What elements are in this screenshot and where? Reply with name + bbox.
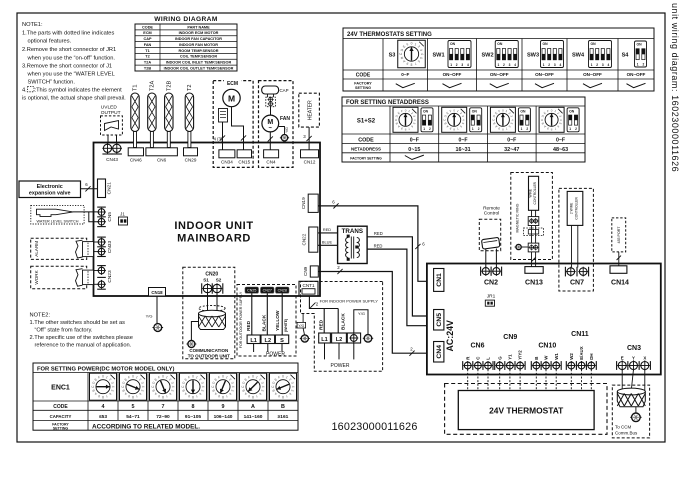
svg-text:L: L bbox=[486, 357, 491, 360]
svg-text:4: 4 bbox=[111, 386, 115, 388]
svg-text:ON: ON bbox=[637, 43, 643, 47]
svg-text:TO OUTDOOR UNIT: TO OUTDOOR UNIT bbox=[188, 354, 230, 359]
svg-text:2: 2 bbox=[456, 63, 458, 67]
svg-text:S: S bbox=[280, 338, 284, 344]
rotary+DIP cell S1+S2 option 1 bbox=[393, 107, 418, 132]
svg-text:“Off” state from factory.: “Off” state from factory. bbox=[35, 328, 93, 334]
optional WORK output plug bbox=[31, 266, 87, 289]
svg-text:L2: L2 bbox=[336, 337, 343, 343]
svg-text:T2: T2 bbox=[145, 55, 149, 59]
connector CN19 bbox=[308, 194, 318, 212]
optional 2 WIRE CONTROLLER bbox=[559, 188, 594, 291]
table: 24V THERMOSTATS SETTING bbox=[343, 28, 654, 91]
indoor unit mainboard outline bbox=[94, 143, 321, 297]
svg-text:2: 2 bbox=[548, 63, 550, 67]
svg-text:1: 1 bbox=[637, 62, 639, 66]
svg-text:1: 1 bbox=[497, 63, 499, 67]
svg-text:ROOM TEMP.SENSOR: ROOM TEMP.SENSOR bbox=[178, 49, 218, 53]
svg-text:ON~OFF: ON~OFF bbox=[627, 72, 646, 77]
svg-text:8: 8 bbox=[102, 395, 104, 399]
svg-text:SW3: SW3 bbox=[527, 53, 539, 59]
svg-text:2: 2 bbox=[503, 63, 505, 67]
svg-text:E: E bbox=[621, 355, 624, 360]
optional To CCM Comm.Bus shielded cable bbox=[612, 385, 649, 438]
wire BLUE CN22 to TRANS bbox=[318, 244, 338, 246]
electronic expansion valve bbox=[19, 181, 81, 198]
svg-text:T2A: T2A bbox=[149, 80, 155, 91]
svg-text:INDOOR FAN CAPACITOR: INDOOR FAN CAPACITOR bbox=[175, 37, 222, 41]
svg-text:NOTE1:: NOTE1: bbox=[22, 22, 43, 28]
svg-text:Y/G: Y/G bbox=[358, 311, 365, 316]
svg-text:Y/G: Y/G bbox=[146, 314, 153, 319]
svg-text:CN46: CN46 bbox=[130, 158, 142, 163]
svg-text:1.The other switches should be: 1.The other switches should be set as bbox=[30, 320, 126, 326]
fan motor M (FAN) bbox=[262, 115, 279, 132]
svg-text:T1: T1 bbox=[145, 49, 149, 53]
connector CN28 (black pill) bbox=[276, 287, 290, 293]
svg-text:NOTE2:: NOTE2: bbox=[30, 313, 51, 319]
svg-text:CN15: CN15 bbox=[238, 160, 250, 165]
svg-text:16023000011626: 16023000011626 bbox=[331, 421, 417, 433]
svg-text:CONTROLLER: CONTROLLER bbox=[533, 181, 537, 204]
svg-text:3: 3 bbox=[602, 63, 604, 67]
ground (CN18) bbox=[154, 324, 162, 332]
table: FOR SETTING POWER (DC MOTOR MODEL ONLY) bbox=[33, 363, 298, 430]
svg-text:4: 4 bbox=[141, 386, 145, 388]
magnetic ring upper bbox=[528, 217, 539, 226]
svg-text:0: 0 bbox=[132, 375, 134, 379]
optional HEATER bbox=[299, 93, 320, 127]
svg-text:5: 5 bbox=[132, 404, 135, 410]
optional communication-to-outdoor-unit group CN20 bbox=[183, 267, 235, 359]
svg-text:UVLED: UVLED bbox=[101, 105, 118, 111]
svg-text:≥161: ≥161 bbox=[278, 414, 289, 420]
svg-text:FAN: FAN bbox=[280, 116, 290, 122]
svg-text:S1+S2: S1+S2 bbox=[357, 119, 376, 125]
magnetic ring lower bbox=[528, 243, 539, 252]
rotary switch ENC1 code 5 bbox=[120, 373, 147, 400]
svg-text:RED: RED bbox=[246, 320, 252, 331]
wire shield to ground (CCM) bbox=[635, 407, 637, 413]
rotary switch ENC1 code 9 bbox=[210, 373, 237, 400]
svg-text:ON: ON bbox=[450, 42, 456, 46]
shielded cable (CCM) bbox=[617, 388, 645, 395]
svg-text:INDOOR UNIT: INDOOR UNIT bbox=[174, 220, 253, 232]
factory-setting checkmark bbox=[583, 83, 602, 87]
svg-text:ON: ON bbox=[569, 109, 575, 113]
svg-text:CODE: CODE bbox=[142, 25, 153, 29]
svg-text:(WHITE): (WHITE) bbox=[284, 319, 288, 332]
svg-text:CAP: CAP bbox=[143, 37, 151, 41]
wire CNT1 to indoor power terminals, 2 conductors bbox=[309, 296, 338, 309]
svg-text:ACCORDING TO RELATED MODEL.: ACCORDING TO RELATED MODEL. bbox=[92, 423, 200, 430]
svg-text:0~F: 0~F bbox=[556, 138, 565, 144]
svg-text:ECM: ECM bbox=[227, 81, 238, 87]
svg-text:2 WIRE: 2 WIRE bbox=[569, 202, 573, 214]
svg-text:CN2: CN2 bbox=[484, 279, 498, 286]
svg-text:CN11: CN11 bbox=[571, 331, 589, 338]
connector CN13 bbox=[525, 267, 543, 274]
svg-text:4: 4 bbox=[420, 53, 424, 55]
svg-text:CN12: CN12 bbox=[304, 160, 316, 165]
svg-text:CN6: CN6 bbox=[157, 158, 167, 163]
svg-text:CONTROLLER: CONTROLLER bbox=[574, 197, 578, 220]
svg-text:BLACK: BLACK bbox=[341, 313, 347, 330]
svg-text:24V THERMOSTATS SETTING: 24V THERMOSTATS SETTING bbox=[347, 32, 432, 38]
connector CN5 (AC24V) bbox=[434, 310, 444, 331]
svg-text:ON~OFF: ON~OFF bbox=[443, 72, 462, 77]
svg-text:SW1: SW1 bbox=[432, 53, 444, 59]
wire RED TRANS to CN5 (AC24V) lower bbox=[367, 249, 427, 326]
svg-text:CN43: CN43 bbox=[106, 157, 118, 162]
svg-text:0~F: 0~F bbox=[410, 138, 419, 144]
wire YELLOW(WHITE) to terminal S bbox=[281, 293, 283, 335]
svg-text:Control: Control bbox=[484, 211, 499, 217]
ground (indoor power) bbox=[364, 335, 372, 343]
svg-text:FACTORY: FACTORY bbox=[354, 82, 372, 86]
svg-text:INDOOR ECM MOTOR: INDOOR ECM MOTOR bbox=[179, 31, 219, 35]
connector CN22 bbox=[309, 227, 318, 252]
svg-text:54~71: 54~71 bbox=[126, 414, 140, 420]
fan motor ground wire Y/G bbox=[279, 127, 285, 135]
svg-text:SETTING: SETTING bbox=[355, 86, 371, 90]
wire RED to terminal L1 (outdoor power) bbox=[251, 293, 253, 335]
wire EEV to CN21, 6 conductors bbox=[81, 188, 98, 190]
svg-text:CN28: CN28 bbox=[278, 289, 287, 293]
svg-text:RED: RED bbox=[374, 231, 383, 236]
connector CN14 bbox=[610, 266, 627, 274]
svg-text:INDOOR FAN MOTOR: INDOOR FAN MOTOR bbox=[179, 43, 218, 47]
wires controller to magnetic ring bbox=[531, 210, 533, 216]
svg-text:B: B bbox=[534, 357, 539, 360]
svg-text:SW2: SW2 bbox=[481, 53, 493, 59]
connector CN9 (indoor board) bbox=[310, 266, 318, 277]
svg-text:POWER: POWER bbox=[266, 351, 285, 357]
svg-text:CN6: CN6 bbox=[470, 342, 484, 349]
svg-text::This symbol indicates the ele: :This symbol indicates the element bbox=[35, 88, 123, 94]
svg-text:1: 1 bbox=[450, 63, 452, 67]
optional ALARM output plug bbox=[31, 238, 87, 259]
wire CN9 to CN4 (AC24V), 2 conductors bbox=[318, 272, 427, 354]
factory-setting checkmark bbox=[535, 83, 554, 87]
svg-text:4: 4 bbox=[467, 63, 469, 67]
connector CN33 bbox=[97, 236, 106, 238]
wire RED CN22 to TRANS bbox=[318, 232, 338, 234]
svg-text:CN25: CN25 bbox=[247, 289, 256, 293]
svg-text:FACTORY SETTING: FACTORY SETTING bbox=[350, 156, 382, 160]
svg-text:NETADDRESS: NETADDRESS bbox=[351, 147, 381, 152]
svg-text:INDOOR COIL INLET TEMP.SENSOR: INDOOR COIL INLET TEMP.SENSOR bbox=[166, 61, 232, 65]
svg-text:8: 8 bbox=[162, 395, 164, 399]
wire HEATER to CN12, 3 conductors bbox=[308, 127, 310, 150]
optional 24V THERMOSTAT bbox=[445, 384, 607, 435]
optional ECM motor assembly bbox=[213, 81, 253, 168]
svg-text:RED: RED bbox=[319, 319, 325, 330]
svg-text:3.Remove the short connector o: 3.Remove the short connector of J1 bbox=[22, 64, 112, 70]
optional 485 PORT bbox=[612, 218, 626, 252]
svg-text:4: 4 bbox=[261, 386, 265, 388]
svg-text:FOR SETTING POWER(DC MOTOR MOD: FOR SETTING POWER(DC MOTOR MODEL ONLY) bbox=[37, 367, 174, 373]
capacitor plug connector bbox=[266, 97, 276, 107]
svg-text:ON: ON bbox=[591, 42, 597, 46]
svg-text:0~F: 0~F bbox=[459, 138, 468, 144]
svg-text:0: 0 bbox=[222, 375, 224, 379]
svg-text:WATER LEVEL SWITCH: WATER LEVEL SWITCH bbox=[36, 219, 78, 223]
svg-text:CAPACITY: CAPACITY bbox=[50, 414, 72, 419]
svg-text:0: 0 bbox=[411, 42, 413, 46]
wires remote to CN2 bbox=[485, 249, 487, 268]
svg-text:CN5: CN5 bbox=[436, 313, 443, 327]
wire ECM to CN15 bbox=[232, 107, 244, 150]
rotary switch ENC1 code B bbox=[270, 373, 297, 400]
svg-text:24V THERMOSTAT: 24V THERMOSTAT bbox=[489, 405, 564, 415]
svg-text:4: 4 bbox=[514, 63, 516, 67]
optional fan capacitor + AC fan assembly bbox=[259, 81, 294, 168]
svg-text:AC:24V: AC:24V bbox=[445, 320, 455, 351]
svg-text:8: 8 bbox=[192, 395, 194, 399]
svg-text:Y1: Y1 bbox=[508, 354, 513, 360]
connector CN27 (black pill) bbox=[261, 287, 275, 293]
connector CN20 pins S1 S2 bbox=[201, 283, 203, 293]
svg-text:3: 3 bbox=[509, 63, 511, 67]
svg-text:CN33: CN33 bbox=[107, 241, 113, 254]
connector CN4 (AC24V) bbox=[434, 342, 444, 363]
transformer TRANS bbox=[338, 226, 368, 263]
wires ALARM plug to CN33 bbox=[94, 241, 99, 243]
svg-text:ON~OFF: ON~OFF bbox=[583, 72, 602, 77]
svg-text:RED: RED bbox=[323, 227, 331, 232]
svg-text:YELLOW: YELLOW bbox=[275, 310, 281, 331]
svg-text:S1: S1 bbox=[203, 278, 209, 283]
svg-text:CN5: CN5 bbox=[107, 212, 113, 222]
svg-text:CN29: CN29 bbox=[185, 158, 197, 163]
svg-text:2.The specific use of the swit: 2.The specific use of the switches pleas… bbox=[30, 335, 133, 341]
svg-text:4.: 4. bbox=[22, 88, 27, 94]
svg-text:CN9: CN9 bbox=[503, 334, 517, 341]
svg-text:expansion valve: expansion valve bbox=[29, 191, 71, 197]
rotary switch ENC1 code 4 bbox=[90, 373, 117, 400]
svg-text:1.The parts with dotted line i: 1.The parts with dotted line indicates bbox=[22, 31, 114, 37]
svg-text:CN21: CN21 bbox=[107, 182, 113, 195]
svg-text:SWITCH” function.: SWITCH” function. bbox=[28, 80, 76, 86]
WIRE CONTROLLER bbox=[529, 176, 539, 210]
svg-text:T1: T1 bbox=[133, 84, 139, 91]
wire FAN to CN4 bbox=[269, 132, 271, 150]
svg-text:DH: DH bbox=[589, 353, 594, 359]
svg-text:CODE: CODE bbox=[358, 138, 374, 144]
svg-text:0~15: 0~15 bbox=[408, 147, 420, 153]
svg-text:48~63: 48~63 bbox=[553, 147, 568, 153]
ground (CCM) bbox=[632, 413, 641, 422]
svg-text:Remote: Remote bbox=[483, 205, 500, 211]
ground (fan motor) bbox=[281, 135, 287, 141]
svg-text:4: 4 bbox=[608, 63, 610, 67]
svg-text:SW4: SW4 bbox=[572, 53, 585, 59]
table: FOR SETTING NETADDRESS bbox=[342, 97, 585, 162]
svg-text:JR1: JR1 bbox=[487, 294, 496, 300]
svg-text:ON: ON bbox=[520, 109, 526, 113]
rotary switch ENC1 code 7 bbox=[150, 373, 177, 400]
factory-setting checkmark bbox=[405, 155, 424, 159]
svg-text:CN20: CN20 bbox=[205, 271, 218, 277]
capacitor CAP bbox=[262, 86, 279, 94]
svg-text:ENC1: ENC1 bbox=[51, 385, 70, 392]
svg-text:T2: T2 bbox=[187, 84, 193, 91]
wires 2wire controller to CN7 bbox=[571, 225, 573, 267]
wires below outdoor power terminals bbox=[253, 344, 255, 353]
svg-text:T2A: T2A bbox=[144, 61, 151, 65]
svg-text:Comm.Bus: Comm.Bus bbox=[615, 430, 638, 435]
svg-text:72~90: 72~90 bbox=[156, 414, 170, 420]
svg-text:TRANS: TRANS bbox=[342, 228, 363, 235]
svg-text:ON: ON bbox=[543, 42, 549, 46]
connector CN25 (black pill) bbox=[245, 287, 259, 293]
svg-text:141~160: 141~160 bbox=[244, 414, 263, 420]
svg-text:CNT1: CNT1 bbox=[303, 283, 315, 288]
svg-text:CN18: CN18 bbox=[151, 290, 163, 295]
connector CN46 bbox=[128, 148, 143, 156]
svg-text:FOR OUTDOOR POWER SUPPLY: FOR OUTDOOR POWER SUPPLY bbox=[239, 291, 243, 348]
svg-text:SETTING: SETTING bbox=[53, 426, 68, 430]
factory-setting checkmark bbox=[627, 83, 646, 87]
connector CN5 (indoor board) bbox=[97, 206, 106, 208]
svg-text:CN13: CN13 bbox=[525, 279, 543, 286]
wires S1 S2 to shielded cable bbox=[207, 293, 209, 312]
svg-text:Y/G: Y/G bbox=[285, 127, 289, 133]
svg-text:X: X bbox=[643, 355, 646, 360]
svg-text:unit wiring diagram: 160230000: unit wiring diagram: 16023000011626 bbox=[670, 3, 680, 172]
svg-text:L1: L1 bbox=[321, 337, 328, 343]
connector CN2 bbox=[480, 267, 482, 276]
svg-text:≤53: ≤53 bbox=[99, 414, 107, 420]
svg-text:2: 2 bbox=[643, 62, 645, 66]
svg-text:0: 0 bbox=[102, 375, 104, 379]
svg-text:MAGNETIC RING: MAGNETIC RING bbox=[515, 203, 519, 232]
svg-text:9: 9 bbox=[222, 404, 225, 410]
optional FOR INDOOR POWER SUPPLY terminal group bbox=[301, 282, 383, 372]
svg-text:CAP: CAP bbox=[280, 88, 289, 93]
svg-text:is optional, the actual shape: is optional, the actual shape shall prev… bbox=[22, 96, 126, 102]
svg-text:2: 2 bbox=[429, 127, 431, 131]
svg-text:CN4: CN4 bbox=[266, 160, 276, 165]
connector CN4 (indoor board) bbox=[264, 150, 279, 158]
svg-text:8: 8 bbox=[410, 62, 412, 66]
svg-text:G: G bbox=[497, 356, 502, 360]
connector CN15 bbox=[237, 150, 251, 158]
svg-text:3: 3 bbox=[461, 63, 463, 67]
wire shield to ground bbox=[191, 322, 198, 341]
wire 485 port to CN14 bbox=[618, 252, 620, 266]
svg-text:S2: S2 bbox=[216, 278, 222, 283]
svg-text:~: ~ bbox=[269, 126, 273, 132]
svg-text:CODE: CODE bbox=[356, 73, 371, 79]
svg-text:8: 8 bbox=[222, 395, 224, 399]
svg-text:CN34: CN34 bbox=[221, 160, 233, 165]
svg-text:4 (3): 4 (3) bbox=[214, 136, 224, 141]
svg-text:BLUE: BLUE bbox=[322, 240, 333, 245]
svg-text:CN10: CN10 bbox=[538, 342, 556, 349]
svg-text:1: 1 bbox=[423, 127, 425, 131]
wire UVLED to CN43 bbox=[107, 135, 109, 144]
svg-text:A: A bbox=[251, 404, 255, 410]
wires below indoor power terminals bbox=[324, 343, 326, 359]
svg-text:FAN: FAN bbox=[144, 43, 152, 47]
svg-text:32~47: 32~47 bbox=[504, 147, 519, 153]
svg-text:L1: L1 bbox=[250, 338, 257, 344]
svg-text:CODE: CODE bbox=[53, 404, 68, 410]
svg-text:4: 4 bbox=[102, 404, 105, 410]
wire CN19 to CN1, 6 conductors bbox=[318, 206, 427, 281]
svg-text:0~F: 0~F bbox=[507, 138, 516, 144]
svg-text:4: 4 bbox=[291, 386, 295, 388]
optional WATER LEVEL SWITCH bbox=[31, 205, 84, 224]
svg-text:ON~OFF: ON~OFF bbox=[535, 72, 554, 77]
svg-text:1: 1 bbox=[591, 63, 593, 67]
connector CN43 bbox=[102, 142, 112, 144]
svg-text:ON: ON bbox=[423, 109, 429, 113]
svg-text:0: 0 bbox=[192, 375, 194, 379]
svg-text:ON: ON bbox=[497, 42, 503, 46]
svg-text:when you use the “WATER LEVEL: when you use the “WATER LEVEL bbox=[27, 72, 115, 78]
svg-text:0: 0 bbox=[282, 375, 284, 379]
svg-text:reference to the manual of app: reference to the manual of application. bbox=[35, 343, 132, 349]
svg-text:ON: ON bbox=[472, 109, 478, 113]
svg-text:1: 1 bbox=[543, 63, 545, 67]
svg-text:FOR INDOOR POWER SUPPLY: FOR INDOOR POWER SUPPLY bbox=[320, 299, 379, 304]
svg-text:M: M bbox=[228, 93, 235, 103]
svg-text:0: 0 bbox=[162, 375, 164, 379]
svg-text:8: 8 bbox=[132, 395, 134, 399]
svg-text:4: 4 bbox=[201, 386, 205, 388]
svg-text:CN22: CN22 bbox=[302, 233, 307, 245]
svg-text:W2: W2 bbox=[569, 353, 574, 360]
connector CN12 bbox=[301, 150, 319, 158]
svg-text:RED: RED bbox=[374, 243, 383, 248]
factory-setting checkmark bbox=[396, 83, 415, 87]
svg-text:2.Remove the short connector o: 2.Remove the short connector of JR1 bbox=[22, 47, 116, 53]
svg-text:1: 1 bbox=[472, 127, 474, 131]
svg-text:CN19: CN19 bbox=[301, 197, 306, 209]
svg-text:CN14: CN14 bbox=[611, 279, 629, 286]
svg-text:T2B: T2B bbox=[144, 66, 151, 70]
svg-text:2: 2 bbox=[478, 127, 480, 131]
shielded communication cable (to outdoor unit) bbox=[199, 306, 225, 312]
terminal block L1 L2 + earth (indoor power) bbox=[319, 333, 331, 343]
ground (wire controller) bbox=[522, 246, 529, 248]
svg-text:CN1: CN1 bbox=[436, 273, 443, 287]
svg-text:L2: L2 bbox=[265, 338, 272, 344]
svg-text:4: 4 bbox=[231, 386, 235, 388]
svg-text:0~F: 0~F bbox=[401, 72, 409, 77]
svg-text:E/AUX: E/AUX bbox=[579, 346, 584, 359]
svg-text:0: 0 bbox=[252, 375, 254, 379]
svg-text:PART NAME: PART NAME bbox=[187, 25, 210, 29]
svg-text:ALARM: ALARM bbox=[34, 241, 39, 257]
rotary+DIP cell S1+S2 option 3 bbox=[490, 107, 515, 132]
ground Y/G (between power supplies) bbox=[302, 314, 304, 323]
AC:24V thermostat interface board outline bbox=[427, 264, 661, 375]
svg-text:BLACK: BLACK bbox=[262, 314, 268, 331]
wire BLACK to terminal L2 (outdoor power) bbox=[266, 293, 268, 335]
svg-text:W1: W1 bbox=[554, 353, 559, 360]
rotary switch ENC1 code 8 bbox=[180, 373, 207, 400]
svg-text:WIRING DIAGRAM: WIRING DIAGRAM bbox=[154, 16, 218, 23]
optional inline connector bbox=[523, 228, 543, 236]
svg-text:FOR SETTING NETADDRESS: FOR SETTING NETADDRESS bbox=[346, 100, 429, 106]
wire CN18 to ground Y/G bbox=[156, 296, 158, 324]
motor M (ECM) bbox=[223, 89, 240, 106]
factory-setting checkmark bbox=[490, 83, 509, 87]
